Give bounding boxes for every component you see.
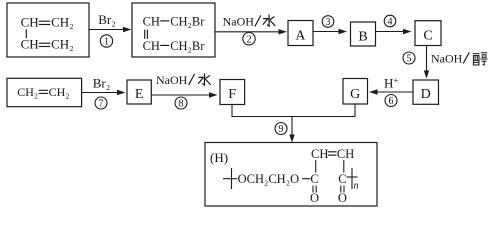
dibromobutene C=C double bond [145,30,148,39]
svg-text:G: G [350,87,360,102]
svg-text:CH: CH [311,147,328,161]
wire bus F-G [232,116,356,118]
svg-text:CH₂: CH₂ [51,14,74,29]
arrow 8 (NaOH/water) [151,92,217,97]
step circle 1 [100,35,112,48]
arrow 2 (NaOH/water) [216,29,288,34]
bond O to C [302,178,310,180]
svg-text:5: 5 [407,54,412,65]
product box: 1,4-dibromo-2-butene [132,3,215,57]
svg-text:E: E [135,87,144,102]
svg-text:F: F [228,87,236,102]
svg-text:1: 1 [104,37,109,48]
bond CH to right C [343,160,345,173]
left C=O double bond [313,186,316,193]
slash step 8 [189,74,195,85]
svg-text:CH₂: CH₂ [49,85,70,99]
box A [288,21,313,46]
svg-text:CH: CH [21,36,39,51]
hanzi alcohol (step 5 label) [473,53,488,65]
svg-text:9: 9 [279,124,284,135]
svg-text:CH: CH [21,14,39,29]
svg-text:4: 4 [388,17,393,28]
arrow 9 (down into H) [289,117,294,143]
svg-text:CH₂: CH₂ [51,36,74,51]
svg-text:CH: CH [337,147,354,161]
box G [343,79,368,105]
svg-text:CH: CH [143,15,160,29]
step circle 5 [403,52,415,65]
svg-text:3: 3 [326,17,331,28]
butadiene line 1 C=C double bond [39,21,50,24]
step circle 9 [275,123,287,136]
svg-text:7: 7 [99,99,104,110]
svg-text:CH: CH [143,39,160,53]
svg-text:O: O [310,191,319,205]
slash step 2 [255,15,261,26]
box D [413,80,439,104]
svg-text:H+: H+ [384,75,398,90]
step circle 7 [95,97,107,110]
svg-text:NaOH: NaOH [156,73,188,87]
dibromobutene line 2 C-C bond [160,44,169,46]
arrow 7 (Br2) [82,90,126,95]
polymer right bracket [347,168,358,189]
polymer left bracket [223,168,237,189]
wire from F down [231,105,233,118]
svg-text:8: 8 [179,99,184,110]
slash step 5 [463,52,469,63]
step circle 2 [243,33,255,46]
butadiene line 2 C=C double bond [39,43,50,46]
svg-text:6: 6 [389,96,394,107]
svg-text:CH₂: CH₂ [17,85,38,99]
box E [127,80,151,104]
box B [351,22,376,46]
svg-text:NaOH: NaOH [431,51,463,65]
svg-text:D: D [421,87,431,102]
svg-text:C: C [310,172,318,186]
svg-text:CH₂Br: CH₂Br [170,15,205,29]
svg-text:(H): (H) [210,150,228,165]
step circle 6 [385,95,397,108]
box F [220,80,245,105]
svg-text:A: A [295,28,306,43]
svg-text:B: B [358,29,367,44]
box C [415,21,441,46]
wire from G down [354,104,356,117]
arrow 3 [313,29,347,34]
product box H (polymer) [205,143,377,207]
reactant box: 1,3-butadiene [7,3,89,57]
bond CH to left C [315,160,317,173]
dibromobutene line 1 C-C bond [160,20,169,22]
svg-text:CH₂Br: CH₂Br [170,39,205,53]
svg-text:Br₂: Br₂ [98,12,116,27]
svg-text:C: C [423,29,432,44]
step circle 4 [384,15,396,27]
right C=O double bond [341,186,344,193]
arrow 4 [376,29,412,34]
butadiene C2-C3 single bond [25,29,27,38]
svg-text:Br₂: Br₂ [93,75,111,90]
vinylene C=C double bond [328,152,337,155]
ethylene C=C double bond [39,90,49,93]
svg-text:NaOH: NaOH [223,15,255,29]
arrow 1 (step Br2) [89,27,132,32]
svg-text:C: C [338,172,346,186]
arrow 6 (D to G, H+) [369,89,413,94]
svg-text:2: 2 [247,34,252,45]
step circle 8 [175,97,187,110]
reactant box: ethylene [7,78,82,106]
svg-text:OCH₂CH₂O: OCH₂CH₂O [238,172,300,186]
step circle 3 [322,16,334,28]
svg-text:O: O [338,191,347,205]
svg-text:n: n [354,181,359,192]
hanzi water (step 8 label) [199,74,211,85]
hanzi water (step 2 label) [263,15,275,26]
arrow 5 (C down to D) [424,46,429,79]
